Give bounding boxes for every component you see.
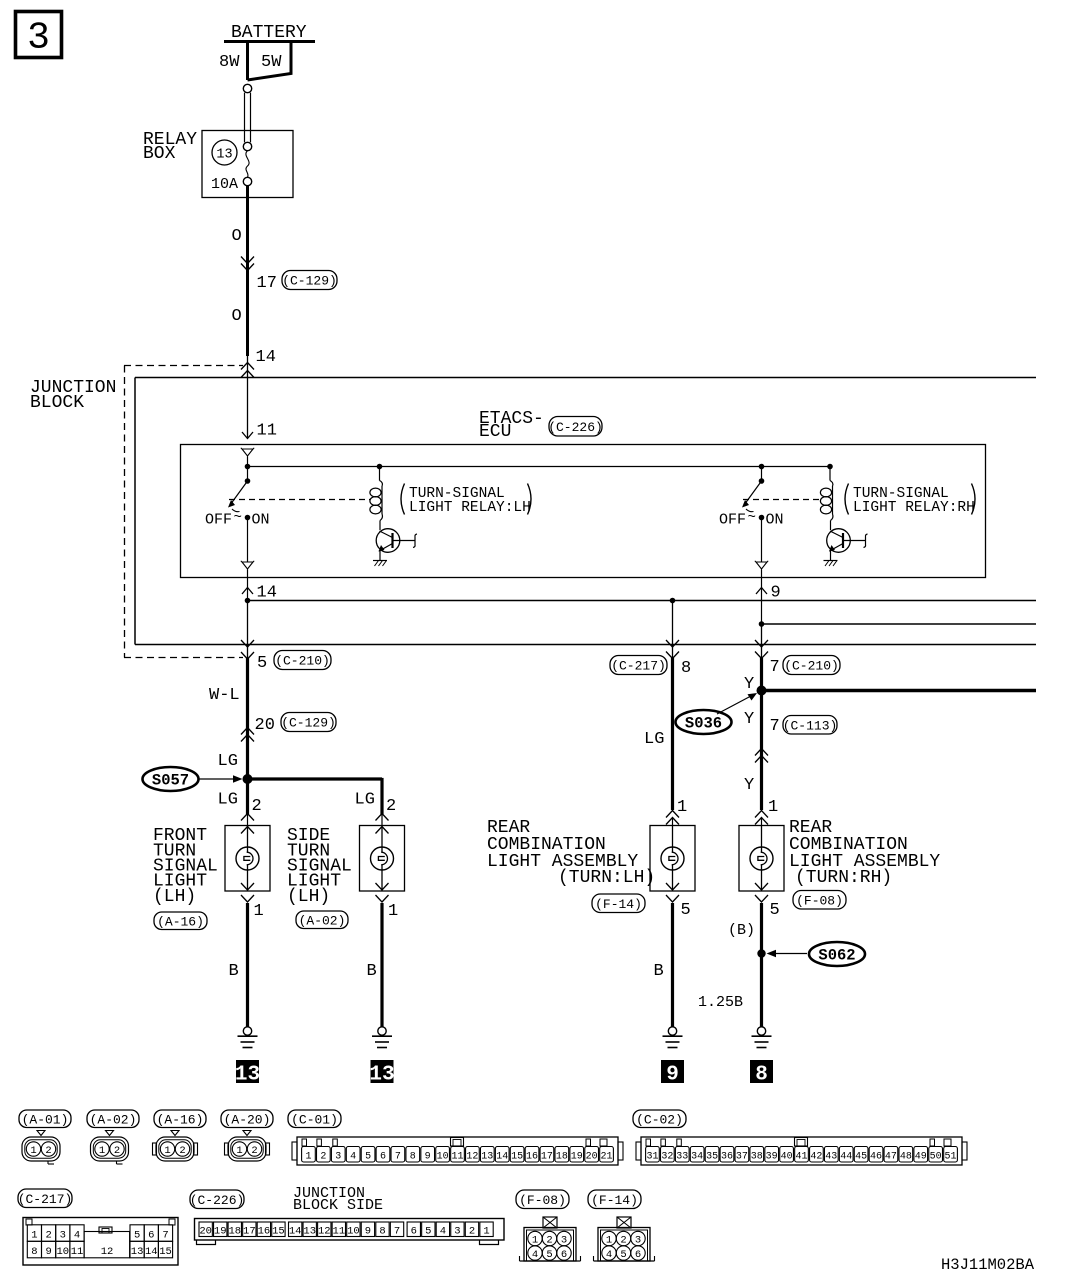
svg-text:40: 40 [781, 1152, 793, 1163]
svg-text:4: 4 [606, 1249, 612, 1261]
svg-text:43: 43 [825, 1152, 837, 1163]
wire LG rear turn LH [672, 601, 674, 653]
svg-text:2: 2 [251, 1145, 257, 1157]
transistor LH [376, 529, 400, 553]
relay box [202, 131, 293, 198]
svg-text:1: 1 [606, 1234, 612, 1246]
svg-text:19: 19 [214, 1226, 227, 1238]
svg-text:11: 11 [71, 1246, 84, 1258]
svg-text:2: 2 [45, 1230, 51, 1242]
node S057 junction [243, 774, 253, 784]
svg-text:8: 8 [379, 1226, 385, 1238]
label turn-signal light relay RH [845, 484, 849, 515]
svg-text:(C-210): (C-210) [784, 659, 839, 674]
svg-text:5: 5 [681, 901, 691, 920]
bus wire top (battery feed inside junction block) [135, 377, 1036, 379]
svg-text:19: 19 [571, 1152, 583, 1163]
svg-text:(A-20): (A-20) [224, 1112, 271, 1127]
relay coil (turn-signal light relay:RH) [827, 464, 833, 470]
svg-text:1.25B: 1.25B [698, 994, 743, 1011]
terminal circle below fusible link [243, 84, 251, 92]
svg-text:6: 6 [148, 1230, 154, 1242]
svg-text:(F-08): (F-08) [796, 893, 843, 908]
bus wire from ECU pin 9 [762, 623, 1037, 625]
svg-text:10: 10 [437, 1152, 449, 1163]
side turn signal light (LH) A-02 [376, 814, 389, 821]
connector A-02 [87, 1110, 139, 1128]
fuse 13 10A [243, 142, 251, 150]
svg-text:4: 4 [440, 1226, 446, 1238]
relay actuation dashed link LH [229, 499, 370, 501]
ECU pin terminal top (LH) [242, 449, 253, 456]
svg-text:LG: LG [644, 730, 664, 749]
svg-text:BLOCK SIDE: BLOCK SIDE [293, 1197, 383, 1214]
svg-text:49: 49 [915, 1152, 927, 1163]
wire LG down to front turn [246, 779, 249, 814]
svg-text:(C-129): (C-129) [281, 716, 336, 731]
svg-text:(A-16): (A-16) [157, 1112, 204, 1127]
junction block dashed outline [124, 365, 243, 367]
svg-text:2: 2 [469, 1226, 475, 1238]
svg-text:18: 18 [228, 1226, 241, 1238]
svg-text:~: ~ [748, 510, 756, 526]
svg-text:15: 15 [272, 1226, 285, 1238]
svg-text:9: 9 [425, 1152, 431, 1163]
svg-text:(LH): (LH) [287, 887, 330, 907]
connector C-02 [633, 1110, 686, 1128]
svg-text:8: 8 [681, 659, 691, 678]
svg-text:39: 39 [766, 1152, 778, 1163]
ECU pin 9 output [761, 578, 763, 625]
svg-text:11: 11 [257, 422, 277, 441]
svg-text:ON: ON [766, 512, 784, 529]
svg-text:46: 46 [870, 1152, 882, 1163]
ground (ECU internal LH) [379, 551, 381, 561]
svg-text:7: 7 [770, 717, 780, 736]
svg-text:(C-226): (C-226) [190, 1193, 245, 1208]
svg-text:6: 6 [380, 1152, 386, 1163]
svg-text:9: 9 [666, 1064, 679, 1087]
svg-text:1: 1 [254, 902, 264, 921]
connector C-129 pin 17 [241, 257, 254, 264]
svg-text:Y: Y [744, 776, 754, 795]
svg-text:38: 38 [751, 1152, 763, 1163]
svg-text:3: 3 [335, 1152, 341, 1163]
svg-text:(A-16): (A-16) [157, 914, 204, 929]
svg-text:9: 9 [365, 1226, 371, 1238]
wire B front turn to ground [246, 903, 249, 1027]
front turn signal light (LH) A-16 [241, 814, 254, 821]
svg-text:OFF: OFF [205, 512, 232, 529]
svg-text:13: 13 [131, 1246, 144, 1258]
splice S057 [143, 767, 199, 791]
svg-text:20: 20 [199, 1226, 212, 1238]
svg-text:13: 13 [303, 1226, 316, 1238]
svg-text:(C-226): (C-226) [548, 420, 603, 435]
svg-text:(C-210): (C-210) [275, 654, 330, 669]
svg-text:OFF: OFF [719, 512, 746, 529]
ECU pin terminal bottom (RH) [756, 562, 767, 569]
svg-text:O: O [232, 307, 242, 326]
svg-text:(F-14): (F-14) [591, 1193, 638, 1208]
svg-text:(C-02): (C-02) [636, 1112, 683, 1127]
svg-text:8: 8 [410, 1152, 416, 1163]
node ECU14/bus [245, 598, 251, 604]
svg-text:BOX: BOX [143, 144, 176, 164]
ECU internal feed wire [248, 466, 831, 468]
svg-text:7: 7 [162, 1230, 168, 1242]
ground G13 (front) [243, 1027, 251, 1035]
connector C-01 [288, 1110, 341, 1128]
fusible link 5W [248, 42, 292, 81]
svg-text:2: 2 [45, 1145, 51, 1157]
relay switch LH [247, 467, 249, 480]
ground G8 [757, 1027, 765, 1035]
svg-text:B: B [367, 962, 377, 981]
svg-text:20: 20 [586, 1152, 598, 1163]
svg-text:2: 2 [620, 1234, 626, 1246]
svg-text:51: 51 [945, 1152, 957, 1163]
connector C-217 [18, 1189, 72, 1208]
svg-text:10: 10 [347, 1226, 360, 1238]
svg-text:42: 42 [810, 1152, 822, 1163]
svg-text:(LH): (LH) [153, 887, 196, 907]
svg-text:31: 31 [646, 1152, 658, 1163]
svg-text:12: 12 [318, 1226, 331, 1238]
fusible link 8W [246, 42, 249, 81]
svg-text:(A-02): (A-02) [299, 913, 346, 928]
svg-text:10: 10 [56, 1246, 69, 1258]
svg-text:3: 3 [454, 1226, 460, 1238]
wire Y rear turn RH [761, 624, 763, 659]
connector F-08 [516, 1190, 569, 1209]
svg-text:(B): (B) [728, 922, 755, 939]
svg-text:LIGHT RELAY:RH: LIGHT RELAY:RH [853, 500, 975, 516]
svg-text:12: 12 [466, 1152, 478, 1163]
svg-text:11: 11 [451, 1152, 463, 1163]
label turn-signal light relay LH [401, 484, 405, 515]
svg-text:13: 13 [216, 148, 232, 163]
svg-text:LG: LG [218, 791, 238, 810]
svg-text:36: 36 [721, 1152, 733, 1163]
svg-text:B: B [654, 962, 664, 981]
svg-text:50: 50 [930, 1152, 942, 1163]
svg-text:6: 6 [635, 1249, 641, 1261]
svg-text:2: 2 [320, 1152, 326, 1163]
svg-text:8: 8 [755, 1064, 768, 1087]
svg-text:1: 1 [99, 1145, 105, 1157]
svg-text:(C-113): (C-113) [783, 718, 838, 733]
transistor RH [827, 529, 851, 553]
splice S062 [757, 949, 765, 957]
rear combination light assembly (TURN:RH) F-08 [755, 811, 768, 818]
wire O battery feed [246, 186, 249, 356]
svg-text:13: 13 [235, 1064, 260, 1087]
wire ECU14 to JB exit pin 5 [247, 601, 249, 660]
svg-text:34: 34 [691, 1152, 703, 1163]
node Y junction to other page [757, 686, 767, 696]
svg-text:O: O [232, 227, 242, 246]
svg-text:S062: S062 [818, 947, 855, 965]
svg-text:48: 48 [900, 1152, 912, 1163]
thick wire Y to right edge [762, 689, 1037, 692]
svg-text:1: 1 [30, 1145, 36, 1157]
ETACS-ECU box C-226 [181, 445, 986, 578]
wire (B) rear RH [760, 903, 763, 1027]
svg-text:9: 9 [771, 584, 781, 603]
svg-text:14: 14 [289, 1226, 302, 1238]
ground (ECU internal RH) [830, 551, 832, 561]
svg-text:1: 1 [532, 1234, 538, 1246]
svg-text:4: 4 [350, 1152, 356, 1163]
svg-text:2: 2 [546, 1234, 552, 1246]
svg-text:17: 17 [243, 1226, 256, 1238]
svg-text:5W: 5W [261, 53, 282, 72]
svg-text:Y: Y [744, 710, 754, 729]
svg-text:BLOCK: BLOCK [30, 393, 84, 413]
bypass wire left side of junction block [134, 378, 136, 645]
svg-text:18: 18 [556, 1152, 568, 1163]
svg-text:(A-02): (A-02) [90, 1112, 137, 1127]
relay actuation dashed link RH [743, 499, 821, 501]
relay coil (turn-signal light relay:LH) [377, 464, 383, 470]
splice S036 [676, 710, 732, 734]
svg-text:8: 8 [31, 1246, 37, 1258]
wire B rear LH to ground [671, 903, 674, 1027]
connector C-113 pin 7 [755, 749, 768, 756]
rear combination light assembly (TURN:LH) F-14 [666, 811, 679, 818]
connector A-20 [221, 1110, 273, 1128]
ECU pin 14 output [247, 578, 249, 601]
wire W-L front turn feed [246, 658, 249, 779]
connector A-01 [19, 1110, 71, 1128]
svg-text:7: 7 [395, 1152, 401, 1163]
svg-text:6: 6 [561, 1249, 567, 1261]
svg-text:ON: ON [252, 512, 270, 529]
svg-text:45: 45 [855, 1152, 867, 1163]
svg-text:17: 17 [541, 1152, 553, 1163]
svg-text:LG: LG [355, 791, 375, 810]
svg-text:44: 44 [840, 1152, 852, 1163]
svg-text:41: 41 [795, 1152, 807, 1163]
svg-text:3: 3 [561, 1234, 567, 1246]
svg-text:4: 4 [74, 1230, 80, 1242]
svg-text:(A-01): (A-01) [22, 1112, 69, 1127]
wire to ECU pin 11 [247, 356, 249, 438]
svg-text:(C-217): (C-217) [611, 659, 666, 674]
svg-text:S036: S036 [685, 715, 722, 733]
svg-text:5: 5 [620, 1249, 626, 1261]
node ECU9/bus [759, 621, 765, 627]
node feed RH [759, 464, 765, 470]
page number box 3 [16, 12, 62, 58]
ground G9 [668, 1027, 676, 1035]
svg-text:(TURN:LH): (TURN:LH) [558, 868, 655, 888]
svg-text:14: 14 [496, 1152, 508, 1163]
svg-text:32: 32 [661, 1152, 673, 1163]
ground G13 (side) [378, 1027, 386, 1035]
svg-text:(TURN:RH): (TURN:RH) [795, 868, 892, 888]
svg-text:(C-217): (C-217) [18, 1192, 73, 1207]
svg-text:17: 17 [257, 274, 277, 293]
svg-text:3: 3 [27, 17, 50, 60]
svg-text:(F-14): (F-14) [595, 897, 642, 912]
svg-text:1: 1 [483, 1226, 489, 1238]
svg-text:5: 5 [425, 1226, 431, 1238]
svg-text:LG: LG [218, 752, 238, 771]
svg-text:5: 5 [546, 1249, 552, 1261]
svg-text:3: 3 [635, 1234, 641, 1246]
svg-text:1: 1 [236, 1145, 242, 1157]
svg-text:5: 5 [365, 1152, 371, 1163]
svg-text:5: 5 [257, 654, 267, 673]
node busC [670, 598, 676, 604]
svg-text:16: 16 [526, 1152, 538, 1163]
svg-text:Y: Y [744, 675, 754, 694]
svg-text:ECU: ECU [479, 422, 511, 442]
svg-text:2: 2 [114, 1145, 120, 1157]
svg-text:9: 9 [45, 1246, 51, 1258]
svg-text:47: 47 [885, 1152, 897, 1163]
svg-text:1: 1 [677, 798, 687, 817]
svg-text:4: 4 [532, 1249, 538, 1261]
svg-text:2: 2 [252, 797, 262, 816]
bus wire lower [135, 644, 1036, 646]
svg-text:B: B [229, 962, 239, 981]
svg-text:S057: S057 [152, 772, 189, 790]
svg-text:10A: 10A [211, 176, 238, 193]
svg-text:1: 1 [305, 1152, 311, 1163]
svg-text:14: 14 [145, 1246, 158, 1258]
svg-text:35: 35 [706, 1152, 718, 1163]
svg-text:15: 15 [159, 1246, 172, 1258]
svg-text:11: 11 [333, 1226, 346, 1238]
fuse number circle 13 [212, 140, 237, 165]
svg-text:14: 14 [256, 348, 276, 367]
svg-text:3: 3 [60, 1230, 66, 1242]
relay switch RH [761, 467, 763, 480]
svg-text:2: 2 [386, 797, 396, 816]
svg-text:(C-01): (C-01) [291, 1112, 338, 1127]
svg-text:12: 12 [101, 1246, 114, 1258]
bus wire from ECU pin 14 [248, 600, 1037, 602]
svg-text:14: 14 [257, 584, 277, 603]
svg-text:5: 5 [134, 1230, 140, 1242]
ECU pin terminal bottom (LH) [242, 562, 253, 569]
node feed LH [245, 464, 251, 470]
connector A-16 [154, 1110, 206, 1128]
connector F-14 [588, 1190, 641, 1209]
svg-text:1: 1 [768, 798, 778, 817]
connector C-129 pin 20 [241, 728, 254, 735]
svg-text:H3J11M02BA: H3J11M02BA [941, 1256, 1035, 1274]
wire LG to side turn signal [248, 777, 383, 780]
svg-text:21: 21 [601, 1152, 613, 1163]
svg-text:6: 6 [411, 1226, 417, 1238]
svg-text:~: ~ [234, 510, 242, 526]
svg-text:13: 13 [481, 1152, 493, 1163]
connector C-226 junction block side [190, 1190, 244, 1209]
svg-text:33: 33 [676, 1152, 688, 1163]
wire B side turn to ground [380, 903, 383, 1027]
svg-text:1: 1 [31, 1230, 37, 1242]
svg-text:7: 7 [770, 658, 780, 677]
svg-text:37: 37 [736, 1152, 748, 1163]
svg-text:16: 16 [258, 1226, 271, 1238]
svg-text:5: 5 [770, 901, 780, 920]
svg-text:13: 13 [369, 1064, 394, 1087]
svg-text:15: 15 [511, 1152, 523, 1163]
svg-text:(C-129): (C-129) [282, 274, 337, 289]
svg-text:W-L: W-L [209, 686, 240, 705]
svg-text:2: 2 [179, 1145, 185, 1157]
svg-text:1: 1 [388, 902, 398, 921]
fusible-link double wire [244, 93, 246, 143]
svg-text:7: 7 [394, 1226, 400, 1238]
svg-text:20: 20 [255, 716, 275, 735]
svg-text:8W: 8W [219, 53, 240, 72]
svg-text:(F-08): (F-08) [519, 1193, 566, 1208]
svg-text:LIGHT RELAY:LH: LIGHT RELAY:LH [409, 500, 531, 516]
svg-text:1: 1 [164, 1145, 170, 1157]
